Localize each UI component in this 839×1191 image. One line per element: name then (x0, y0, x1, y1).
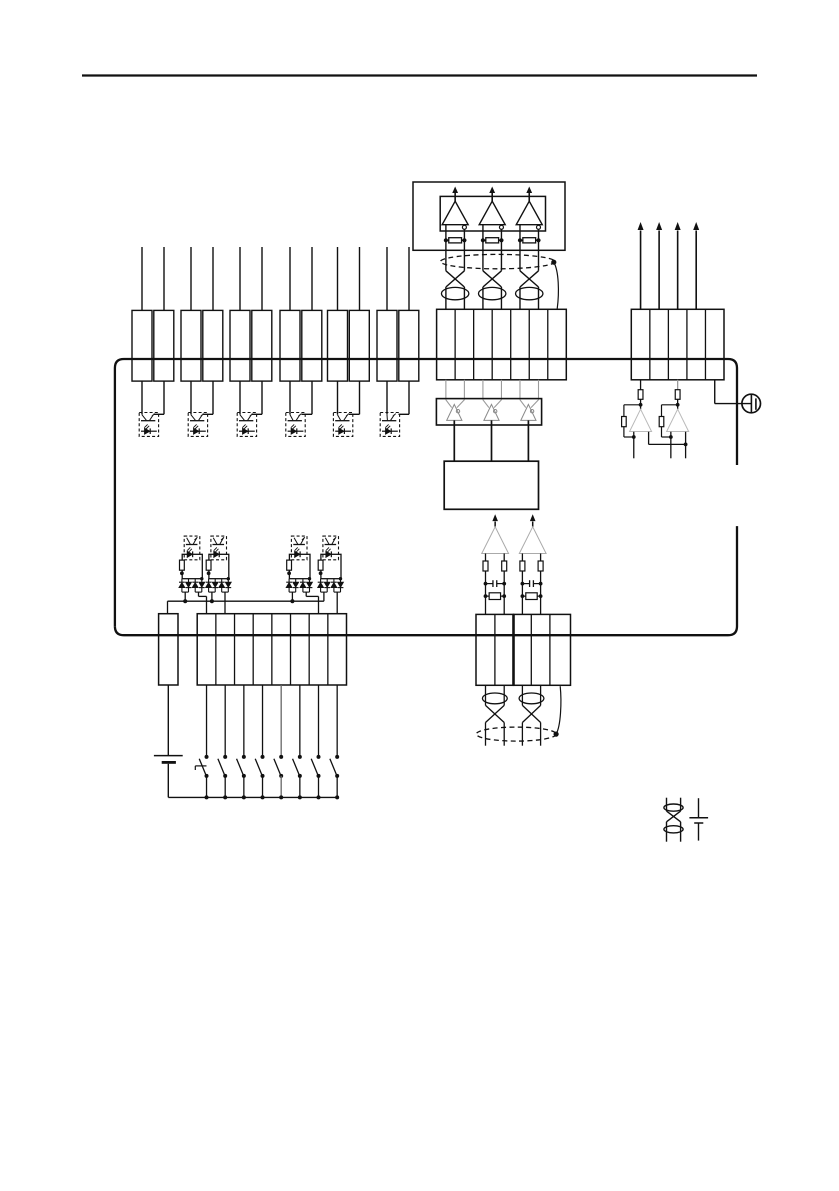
CN-mid pin dividers (494, 614, 496, 685)
photocoupler PC2 phototransistor (190, 420, 204, 422)
connector CN-center pin divider 2 (473, 309, 475, 380)
ground return bus (168, 796, 337, 798)
key photocoupler K2 phototransistor (212, 544, 224, 546)
key switch SW2 bus junction dot (223, 795, 227, 799)
shunt resistor amp1 (486, 595, 490, 597)
stubs below crossover 1 (485, 723, 487, 746)
buffer U2 triangle 3 (521, 404, 536, 420)
buffer U2 output wire 3 (527, 420, 529, 461)
shared output stub down (685, 432, 687, 459)
connector pair 4 left cell (280, 310, 300, 381)
connector CN-right pin divider 4 (704, 309, 706, 380)
shared output junction dot (684, 443, 688, 447)
gray wires CN-center to buffers (445, 380, 447, 400)
main board outline (left/top/right-upper) (115, 359, 737, 626)
bridge left output to bus K1 (184, 592, 186, 601)
toroid core ellipse bottom 2 (519, 693, 544, 704)
key switch SW1 lever (199, 759, 206, 775)
key switch SW2 wire from CN-keys (224, 685, 226, 755)
capacitor C1 top wire (698, 798, 700, 817)
key switch SW6 wire from CN-keys (299, 685, 301, 755)
key switch SW5 bus junction dot (279, 795, 283, 799)
key loop corner junction dot K2 (227, 577, 230, 580)
horizontal page rule (82, 74, 757, 76)
key switch SW5 lever (274, 759, 281, 775)
connector pair 5 left cell (328, 310, 348, 381)
photocoupler PC4 phototransistor (288, 420, 302, 422)
shield drain wire to CN-mid pin5 (556, 686, 561, 734)
photocoupler PC4 LED diode (288, 430, 304, 432)
key switch SW6 bottom contact (298, 774, 302, 778)
key switch SW8 bus junction dot (335, 795, 339, 799)
key switch SW6 bus junction dot (298, 795, 302, 799)
key switch SW3 wire from CN-keys (243, 685, 245, 755)
wires from pair 6 down to photocoupler (386, 381, 388, 415)
wire stubs above pair 5 (337, 247, 339, 310)
buffer U2 bubble 2 (494, 410, 497, 413)
connector pair 1 left cell (132, 310, 152, 381)
toroid core ellipse 2 (bottom right) (664, 826, 683, 833)
power-amp inner box (440, 196, 545, 231)
key switch SW1 wire to bus (206, 776, 208, 798)
key switch SW8 wire to bus (336, 776, 338, 798)
key loop corner junction dot K4 (339, 577, 342, 580)
key switch SW7 wire to bus (318, 776, 320, 798)
connector CN-right pin divider 2 (667, 309, 669, 380)
key switch SW7 top contact (317, 755, 321, 759)
feedback junction dot (x=677.65) (669, 435, 673, 439)
key switch SW1 top contact (205, 755, 209, 759)
headphone jack J1 circle (742, 394, 761, 413)
diode bridge K1 (181, 579, 183, 582)
key switch SW4 bottom contact (261, 774, 265, 778)
wire stubs above pair 2 (190, 247, 192, 310)
wires from pair 2 down to photocoupler (190, 381, 192, 415)
amplifier A2 triangle (479, 201, 505, 225)
photocoupler PC5 phototransistor (335, 420, 349, 422)
key switch SW5 wire from CN-keys (280, 685, 282, 755)
connector CN-right pin divider 3 (686, 309, 688, 380)
CN-keys pin divider 5 (290, 614, 292, 685)
connector block CN-keys body (197, 614, 346, 685)
connector block CN-center body (437, 309, 567, 380)
bridge left output to bus K3 (291, 592, 293, 601)
key resistor K4 (318, 560, 323, 570)
connector block CN-right body (631, 309, 724, 380)
connector pair 2 right cell (203, 310, 223, 381)
key switch SW8 bottom contact (335, 774, 339, 778)
junction dots A2 (481, 238, 485, 242)
connector block CN-mid-right half (514, 614, 571, 685)
connector pair 5 right cell (349, 310, 369, 381)
feedback junction dot (x=640.57) (632, 435, 636, 439)
amplifier A1 output arrow (454, 193, 456, 202)
buffer U2 output wire 1 (453, 420, 455, 461)
stubs below crossover 2 (521, 723, 523, 746)
key switch SW7 wire from CN-keys (318, 685, 320, 755)
key photocoupler K1 phototransistor (186, 544, 198, 546)
key switch SW8 wire from CN-keys (336, 685, 338, 755)
shield node dot (bottom) (554, 732, 559, 737)
key switch SW3 lever (237, 759, 244, 775)
key switch SW3 wire to bus (243, 776, 245, 798)
wires from pair 4 down to photocoupler (289, 381, 291, 415)
diode bridge K2 (208, 579, 210, 582)
coupling capacitor amp2 (522, 583, 529, 585)
key photocoupler K4 phototransistor (325, 544, 337, 546)
key switch SW4 top contact (261, 755, 265, 759)
key switch SW4 wire to bus (262, 776, 264, 798)
monitor amp triangle (x=640.57) (630, 409, 652, 431)
twisted pair wires to connector A2 (482, 287, 484, 309)
photocoupler PC2 dashed box (188, 413, 207, 437)
connector CN-center pin divider 1 (454, 309, 456, 380)
resistor array block RA1 (159, 614, 178, 685)
capacitor C1 bottom plate (694, 822, 703, 824)
DAC output amp triangle 2 (519, 527, 546, 554)
photocoupler PC1 LED diode (141, 430, 157, 432)
connector CN-center pin divider 6 (547, 309, 549, 380)
bridge right output to connector K4 (336, 592, 338, 614)
CN-keys pin divider 2 (234, 614, 236, 685)
connector CN-center pin divider 3 (491, 309, 493, 380)
wires from pair 1 down to photocoupler (141, 381, 143, 415)
buffer U2 output wire 2 (491, 420, 493, 461)
bridge output joins K3 (289, 591, 296, 593)
buffer U2 triangle 2 (484, 404, 499, 420)
amplifier A1 output pair wires (445, 225, 447, 271)
photocoupler PC6 phototransistor (382, 420, 396, 422)
bridge right output to connector K2 (224, 592, 226, 614)
resistor across A2 outputs (483, 239, 486, 241)
key switch SW1 bottom contact (205, 774, 209, 778)
amplifier A2 output arrow (491, 193, 493, 202)
bridge left output to bus K2 (211, 592, 213, 601)
diode bridge K4 (320, 579, 322, 582)
amp1 output wires down (485, 554, 487, 615)
resistor across A1 outputs (446, 239, 449, 241)
key switch SW2 top contact (223, 755, 227, 759)
key switch SW6 top contact (298, 755, 302, 759)
photocoupler PC5 LED diode (335, 430, 351, 432)
key photocoupler K2 dashed box (211, 536, 227, 560)
key photocoupler K4 dashed box (323, 536, 339, 560)
key resistor K2 (206, 560, 211, 570)
capacitor C1 bottom wire (698, 823, 700, 841)
DAC IC box U3 (444, 461, 538, 509)
connector pair 4 right cell (302, 310, 322, 381)
buffer U2 triangle 1 (447, 404, 462, 420)
photocoupler PC3 dashed box (237, 413, 256, 437)
battery B1 bottom wire (167, 764, 169, 798)
photocoupler PC1 phototransistor (141, 420, 155, 422)
inverting node stub down (x=677.65) (670, 432, 672, 459)
series resistors amp2 (520, 561, 525, 571)
feedback resistor (x=640.57) (622, 417, 627, 427)
input node dot (x=640.57) (639, 403, 643, 407)
wire resistor to amp input (x=640.57) (640, 399, 642, 409)
feedback wire left (x=640.57) (624, 404, 641, 406)
key loop rectangle K1 (182, 554, 202, 578)
wire CN-right pin to resistor (x=640.57) (640, 380, 642, 390)
key switch SW2 bottom contact (223, 774, 227, 778)
wire from CN-right pin5 to jack (714, 380, 716, 404)
key loop rectangle K3 (289, 554, 310, 578)
key switch SW6 lever (293, 759, 300, 775)
bridge right output to connector K3 (305, 592, 307, 596)
buffer U2 bubble 1 (456, 410, 459, 413)
amplifier A3 inverting bubble (537, 225, 541, 229)
wire stubs above pair 3 (239, 247, 241, 310)
key switch SW7 bus junction dot (317, 795, 321, 799)
key switch SW3 bottom contact (242, 774, 246, 778)
bridge output joins K2 (209, 591, 216, 593)
shield dashed ellipse (top) (441, 254, 555, 268)
input node dot (x=677.65) (676, 403, 680, 407)
diode bridge K3 (288, 579, 290, 582)
key junction dot K2 (207, 571, 211, 575)
key loop corner junction dot K1 (200, 577, 203, 580)
key switch SW4 wire from CN-keys (262, 685, 264, 755)
amplifier A3 output arrow (528, 193, 530, 202)
amplifier A1 inverting bubble (462, 225, 466, 229)
key switch SW2 lever (218, 759, 225, 775)
wire stubs above pair 1 (141, 247, 143, 310)
amplifier A2 inverting bubble (499, 225, 503, 229)
twisted pair wires to connector A1 (445, 287, 447, 309)
jack J1 ring contact bar (755, 398, 757, 409)
amp2 output wires down (521, 554, 523, 615)
key switch SW4 bus junction dot (261, 795, 265, 799)
crossover below CN-mid 2 (522, 705, 540, 722)
wires from pair 5 down to photocoupler (337, 381, 339, 415)
shunt resistor amp2 (522, 595, 525, 597)
wire resistor to amp input (x=677.65) (677, 399, 679, 409)
twisted pair crossover (bottom right) (667, 811, 681, 822)
connector block CN-mid-left half (476, 614, 514, 685)
connector CN-center pin divider 5 (528, 309, 530, 380)
amplifier A1 triangle (442, 201, 468, 225)
series resistors amp1 (483, 561, 488, 571)
CN-keys pin divider 7 (327, 614, 329, 685)
photocoupler PC4 dashed box (286, 413, 305, 437)
key loop corner junction dot K3 (308, 577, 311, 580)
output arrow 2 from CN-right (658, 231, 660, 310)
key switch SW2 wire to bus (224, 776, 226, 798)
battery B1 negative plate (162, 761, 176, 764)
connector CN-right pin divider 1 (649, 309, 651, 380)
key switch SW1 bus junction dot (205, 795, 209, 799)
connector pair 6 left cell (377, 310, 397, 381)
output arrow 3 from CN-right (677, 231, 679, 310)
coupling capacitor amp1 (486, 583, 493, 585)
twisted pair below CN-mid 2 (521, 685, 523, 705)
DAC output arrow 1 (494, 522, 496, 527)
CN-keys pin divider 3 (252, 614, 254, 685)
key switch SW8 lever (330, 759, 337, 775)
toroid core ellipse A2 (478, 287, 505, 299)
key switch SW8 top contact (335, 755, 339, 759)
toroid core ellipse 1 (bottom right) (664, 804, 683, 811)
toroid core ellipse A1 (441, 287, 468, 299)
junction dots A3 (518, 238, 522, 242)
key photocoupler K4 LED on loop top (326, 551, 331, 557)
photocoupler PC1 dashed box (139, 413, 158, 437)
connector pair 2 left cell (181, 310, 201, 381)
key switch SW3 top contact (242, 755, 246, 759)
key photocoupler K3 LED on loop top (295, 551, 300, 557)
key switch SW1 wire from CN-keys (206, 685, 208, 755)
twisted pair crossover A2 (483, 271, 502, 287)
key junction dot K3 (287, 571, 291, 575)
resistor across A3 outputs (520, 239, 523, 241)
twisted pair stub wires (bottom right) (666, 798, 668, 811)
amplifier A2 output pair wires (482, 225, 484, 271)
photocoupler PC3 LED diode (239, 430, 255, 432)
feedback wire bottom (x=640.57) (623, 427, 625, 437)
photocoupler PC6 dashed box (380, 413, 399, 437)
shield dashed ellipse (bottom) (476, 727, 556, 741)
series resistor above amp (x=677.65) (675, 390, 680, 400)
CN-mid thick middle divider (512, 614, 515, 685)
toroid core ellipse A3 (516, 287, 543, 299)
battery B1 positive plate (154, 755, 183, 757)
twisted pair below CN-mid 1 (485, 685, 487, 705)
toroid core ellipse bottom 1 (482, 693, 507, 704)
wire stubs above pair 6 (386, 247, 388, 310)
shield drain wire to connector pin 7 (554, 262, 559, 309)
wires from pair 3 down to photocoupler (239, 381, 241, 415)
connector pair 1 right cell (154, 310, 174, 381)
twisted pair wires to connector A3 (519, 287, 521, 309)
photocoupler PC5 dashed box (333, 413, 352, 437)
junction dots A1 (444, 238, 448, 242)
feedback resistor (x=677.65) (659, 417, 664, 427)
bridge output joins K4 (321, 591, 328, 593)
battery wire from RA1 (167, 685, 169, 755)
key switch SW7 lever (311, 759, 318, 775)
key switch SW3 bus junction dot (242, 795, 246, 799)
switch SW1 actuator tick (195, 765, 206, 767)
key loop rectangle K4 (321, 554, 341, 578)
shield node dot (top) (551, 260, 556, 265)
key switch SW7 bottom contact (317, 774, 321, 778)
key switch SW4 lever (255, 759, 262, 775)
output arrow 4 from CN-right (695, 231, 697, 310)
key photocoupler K3 phototransistor (293, 544, 305, 546)
connector pair 6 right cell (399, 310, 419, 381)
key photocoupler K2 LED on loop top (214, 551, 219, 557)
bus left drop to resistor array (167, 601, 169, 614)
photocoupler PC3 phototransistor (239, 420, 253, 422)
amplifier A3 triangle (516, 201, 542, 225)
wire stubs above pair 4 (289, 247, 291, 310)
feedback wire left (x=677.65) (662, 404, 678, 406)
common bus wire (168, 600, 324, 602)
twisted pair crossover A3 (520, 271, 539, 287)
DAC output arrow 2 (532, 522, 534, 527)
main board outline (right-lower/bottom) (115, 526, 737, 635)
CN-keys pin divider 6 (308, 614, 310, 685)
key junction dot K1 (180, 571, 184, 575)
power-amp outer box (413, 182, 565, 250)
CN-keys pin divider 1 (215, 614, 217, 685)
key photocoupler K1 dashed box (184, 536, 200, 560)
photocoupler PC6 LED diode (382, 430, 398, 432)
key switch SW5 top contact (279, 755, 283, 759)
DAC output amp triangle 1 (482, 527, 509, 554)
key resistor K1 (180, 560, 185, 570)
key switch SW6 wire to bus (299, 776, 301, 798)
key switch SW5 wire to bus (280, 776, 282, 798)
capacitor C1 top plate (689, 817, 708, 819)
amplifier A3 output pair wires (519, 225, 521, 271)
feedback wire bottom (x=677.65) (661, 427, 663, 437)
bridge right output to connector K1 (198, 592, 200, 596)
crossover below CN-mid 1 (486, 705, 505, 722)
monitor amp triangle (x=677.65) (667, 409, 689, 431)
bridge output joins K1 (182, 591, 189, 593)
jack J1 tip contact bar (750, 394, 752, 413)
key photocoupler K1 LED on loop top (187, 551, 192, 557)
connector CN-center pin divider 4 (510, 309, 512, 380)
key junction dot K4 (319, 571, 323, 575)
photocoupler PC2 LED diode (190, 430, 206, 432)
key switch SW5 bottom contact (279, 774, 283, 778)
twisted pair crossover A1 (446, 271, 465, 287)
wire CN-right pin to resistor (x=677.65) (677, 380, 679, 390)
connector pair 3 right cell (252, 310, 272, 381)
CN-keys pin divider 4 (271, 614, 273, 685)
key photocoupler K3 dashed box (291, 536, 307, 560)
buffer box U2 outline (436, 399, 541, 425)
output arrow 1 from CN-right (640, 231, 642, 310)
series resistor above amp (x=640.57) (638, 390, 643, 400)
connector pair 3 left cell (230, 310, 250, 381)
bridge left output to bus K4 (323, 592, 325, 601)
buffer U2 bubble 3 (530, 410, 533, 413)
key resistor K3 (287, 560, 292, 570)
key loop rectangle K2 (209, 554, 229, 578)
inverting node stub down (x=640.57) (633, 432, 635, 459)
amp1 output wire to shared node (648, 432, 650, 445)
